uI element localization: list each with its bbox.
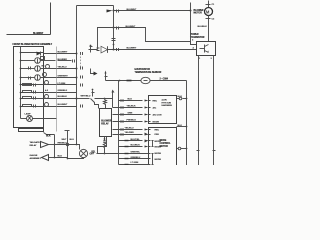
dark connector dashes [127, 80, 132, 82]
vertical x67 [67, 131, 69, 159]
row3 offpage arrow [91, 69, 94, 74]
thin connector vertical x55.5 [56, 47, 58, 132]
svg-text:REC: REC [155, 130, 160, 132]
svg-text:BLU: BLU [70, 139, 75, 141]
connector pair on y51.6 [117, 48, 119, 51]
row3 connector [81, 67, 83, 70]
svg-text:2 - C584: 2 - C584 [160, 78, 169, 81]
svg-text:BLU/WHT: BLU/WHT [127, 9, 137, 11]
transistor symbol [204, 45, 206, 53]
row 107 from sensor2 corner [113, 107, 143, 109]
up arrow stub at x112.5 [112, 93, 114, 99]
svg-text:LT GRN: LT GRN [131, 162, 139, 164]
svg-text:GAUGE: GAUGE [30, 154, 38, 157]
svg-text:A/C: A/C [153, 107, 157, 110]
sensor wire left [106, 80, 141, 82]
connector pair on y10.5 [117, 10, 119, 13]
svg-text:BLK: BLK [178, 125, 183, 127]
svg-text:BLK: BLK [178, 96, 183, 98]
bus x118.5 vertical [118, 81, 120, 165]
relay coil pin [104, 98, 106, 100]
svg-text:HTR SUB: HTR SUB [162, 102, 172, 104]
connector strip under box [19, 129, 44, 132]
rows from bus to box2 [119, 140, 143, 142]
svg-text:MODE: MODE [160, 140, 167, 142]
wire from strip [44, 133, 55, 135]
box U2 mode control motor unit [149, 128, 177, 166]
svg-text:BLU/WHT: BLU/WHT [33, 33, 44, 35]
blower relay K1 [100, 109, 112, 137]
box1 top right pin [177, 98, 180, 100]
svg-text:BLU/YEL: BLU/YEL [131, 139, 141, 141]
svg-text:BLOWER: BLOWER [194, 10, 204, 12]
row1 connector at bus [81, 52, 83, 55]
lamp circle row2 [35, 58, 41, 64]
vertical x190 [190, 3, 192, 45]
svg-text:RELAY: RELAY [30, 144, 38, 147]
relay pins right rows [113, 114, 143, 116]
svg-text:TAILGATE: TAILGATE [30, 141, 41, 144]
svg-text:RELAY: RELAY [101, 123, 109, 126]
svg-text:FRONT BLOWER MOTOR ASSEMBLY: FRONT BLOWER MOTOR ASSEMBLY [13, 43, 53, 46]
wire fan bottom loop [68, 157, 84, 160]
svg-text:WHT/BLU: WHT/BLU [81, 96, 91, 98]
svg-text:WHT: WHT [62, 139, 68, 141]
svg-text:CONTROL: CONTROL [160, 143, 172, 145]
wire vertical x50 up [50, 3, 52, 35]
wire y10.5 to blower motor [114, 10, 191, 12]
wire stub to fan symbol [77, 145, 80, 150]
svg-text:GRN/BLU: GRN/BLU [131, 157, 141, 159]
power transistor Q1 [197, 42, 216, 56]
row2 connector end [73, 60, 75, 63]
svg-text:M: M [206, 9, 210, 14]
svg-text:MOTOR: MOTOR [160, 146, 169, 148]
svg-text:LT GRN: LT GRN [58, 83, 66, 85]
row7 switch row to relay [21, 98, 44, 100]
transistor box bottom pins [198, 56, 200, 166]
svg-text:PNK/BLK: PNK/BLK [127, 120, 137, 122]
svg-text:YEL/RED: YEL/RED [125, 132, 135, 134]
svg-text:MOTOR: MOTOR [194, 13, 203, 15]
svg-text:YEL/BLU: YEL/BLU [125, 128, 134, 130]
row8 switch row [21, 106, 44, 108]
box2 top right pin [177, 126, 187, 128]
row1 diode row [21, 52, 44, 54]
wire top edge y5 [77, 5, 114, 7]
fan motor circle M1 [79, 149, 87, 157]
row5 switch row [21, 84, 44, 86]
row3 circled pin [46, 65, 50, 69]
svg-text:POWER: POWER [190, 34, 199, 36]
svg-text:A/C CON: A/C CON [153, 114, 162, 117]
arrow into node x113 [107, 10, 113, 13]
row3 motor row [21, 68, 35, 70]
internal brackets [152, 141, 154, 147]
corner down x186 [186, 81, 188, 166]
diode loop top [89, 28, 114, 50]
svg-text:FRE: FRE [155, 134, 160, 136]
svg-text:EVAPORATOR: EVAPORATOR [135, 68, 151, 71]
svg-text:TEMPERATURE SENSOR: TEMPERATURE SENSOR [135, 71, 162, 74]
svg-text:BLU/WHT: BLU/WHT [58, 104, 68, 106]
svg-text:GRN/BLK: GRN/BLK [58, 90, 68, 92]
vertical x54.5 [54, 135, 56, 158]
svg-text:BLU/BLK: BLU/BLK [198, 26, 208, 28]
svg-text:BLU/WHT: BLU/WHT [58, 52, 68, 54]
svg-text:BLK: BLK [46, 135, 51, 137]
wire y27 branch [114, 28, 197, 45]
sensor wire right [150, 80, 186, 82]
row6 switch row [21, 92, 44, 94]
row2 lamp row [21, 60, 35, 62]
diode D1 in box [37, 52, 41, 56]
svg-text:YEL: YEL [91, 152, 96, 154]
svg-text:ASSEMBLY: ASSEMBLY [30, 157, 42, 160]
node x113 y51.6 [113, 49, 115, 51]
wire switch chain right [77, 98, 90, 100]
svg-text:MODE: MODE [155, 153, 162, 155]
row4 connector [81, 76, 83, 79]
node on x113 y10.5 [113, 10, 115, 12]
wire bus x76 vertical [76, 6, 78, 145]
svg-text:TRANSISTOR: TRANSISTOR [190, 36, 205, 39]
svg-text:BLK: BLK [128, 99, 133, 101]
svg-text:GRN: GRN [128, 113, 133, 115]
svg-text:NC: NC [42, 66, 46, 68]
relay drop n-wire [98, 137, 107, 154]
box2 right pin [177, 148, 179, 150]
svg-text:BLOWER: BLOWER [101, 121, 111, 123]
svg-text:GRN/YEL: GRN/YEL [131, 152, 141, 154]
relay bottom pin symbol [104, 137, 106, 141]
svg-text:YEL/BLK: YEL/BLK [127, 106, 136, 108]
svg-text:BLU/WHT: BLU/WHT [127, 48, 137, 50]
svg-text:BLU/BLK: BLU/BLK [58, 96, 68, 98]
wire vertical x113 [113, 6, 115, 50]
svg-text:YEL/BLU: YEL/BLU [58, 67, 67, 69]
switch blade [91, 99, 99, 109]
small mark above row2 [41, 57, 45, 60]
dashed vertical x80.5 [80, 54, 82, 68]
evaporator temperature sensor TH1 [141, 77, 150, 83]
wire y97 straight to corner x112.5 [95, 99, 113, 108]
row1 tick branch x90 [90, 46, 92, 53]
wire diode out to power transistor [108, 49, 197, 51]
svg-text:HARNESS: HARNESS [162, 104, 173, 107]
diode D2 [101, 46, 108, 53]
svg-text:4-DR:: 4-DR: [162, 99, 168, 102]
svg-text:BLK: BLK [58, 156, 63, 158]
row 100 [119, 100, 143, 102]
box U1 heater control unit [149, 96, 177, 124]
svg-text:MODE: MODE [155, 159, 162, 161]
row4 motor row [21, 77, 35, 79]
svg-text:BLU/WHT: BLU/WHT [126, 26, 136, 28]
evaporator sensor stub arrow [105, 73, 107, 81]
svg-text:REC: REC [153, 101, 158, 103]
svg-text:MODE: MODE [153, 122, 160, 124]
row1 exit wire [44, 53, 77, 55]
svg-text:OFF: OFF [90, 154, 95, 156]
stub with node above [92, 91, 94, 97]
connector on loop [97, 48, 100, 51]
left bus x19.5 [20, 47, 22, 119]
svg-text:BLU/BLK: BLU/BLK [131, 145, 141, 147]
blower motor M2 [208, 1, 210, 8]
wire top-left horizontal [7, 34, 51, 36]
svg-text:GRN/WHT: GRN/WHT [58, 76, 69, 78]
connector pair on y27 [117, 27, 119, 30]
node on x113 y27 [113, 27, 115, 29]
connector ticks on x113 [112, 39, 116, 41]
